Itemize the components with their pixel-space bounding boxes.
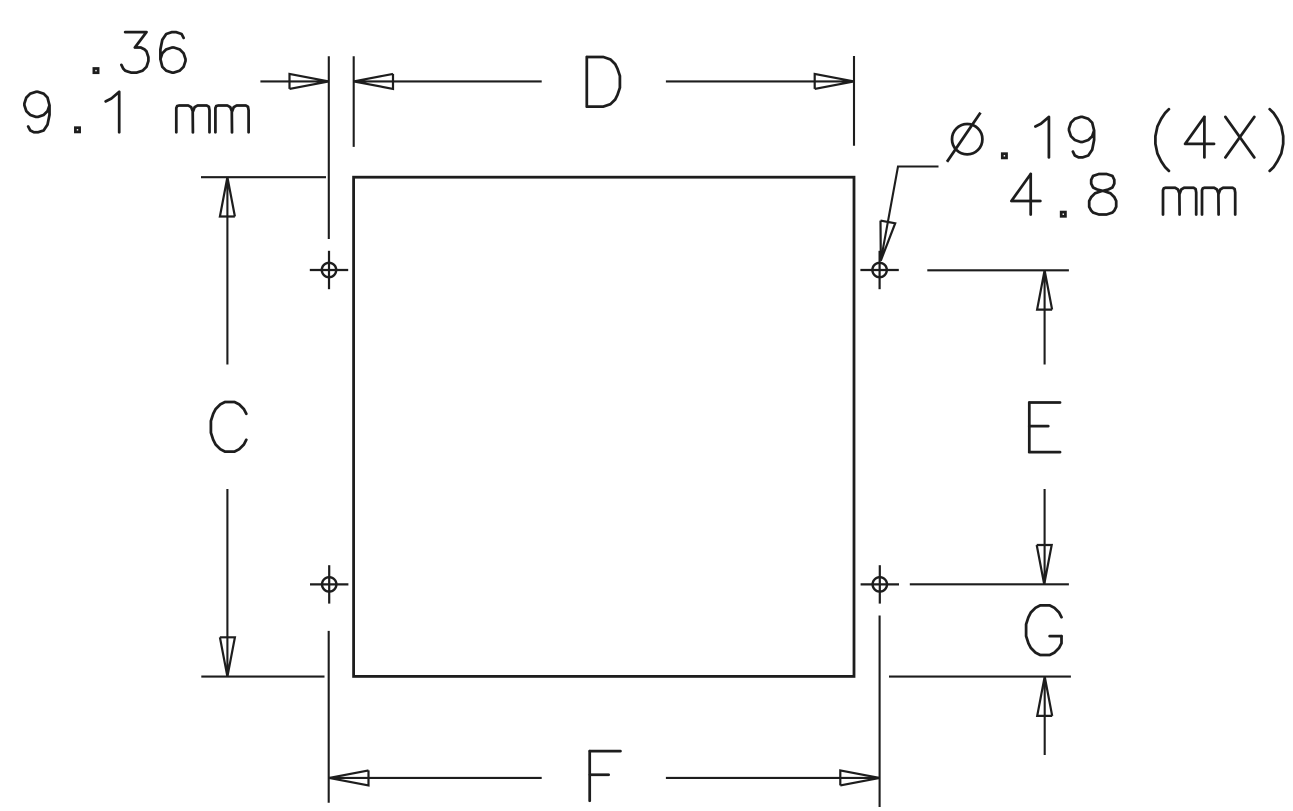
dimension text .36 bbox=[94, 69, 98, 73]
extension line square right edge top (x=854) bbox=[853, 56, 855, 146]
dimension C line lower segment bbox=[226, 489, 228, 677]
dimension F left arrowhead bbox=[329, 770, 368, 785]
extension line bottom edge left (y=677) bbox=[201, 676, 324, 678]
dimension letter C bbox=[211, 402, 246, 452]
dimension E up arrowhead bbox=[1037, 270, 1052, 309]
dimension C down arrowhead bbox=[220, 637, 235, 676]
dimension D line left segment bbox=[354, 80, 542, 82]
extension line hole-center right bottom (y=584) bbox=[910, 583, 1069, 585]
hole callout text .19 (4X) bbox=[1002, 154, 1006, 158]
dimension E line lower segment bbox=[1044, 489, 1046, 584]
dimension F right arrowhead bbox=[840, 770, 879, 785]
extension line bottom edge right (y=677) bbox=[889, 676, 1071, 678]
.36 dimension line bbox=[260, 80, 328, 82]
extension line hole-center right top (y=270) bbox=[927, 269, 1069, 271]
dimension D line right segment bbox=[666, 80, 854, 82]
hole callout text 4.8 mm bbox=[1011, 174, 1040, 201]
extension line hole-center top (x=329) bbox=[328, 56, 330, 239]
extension line hole-center bottom-left (x=329) bbox=[328, 631, 330, 803]
leader arrowhead bbox=[881, 221, 896, 261]
dimension G up arrowhead stem bbox=[1044, 677, 1046, 755]
dimension F line right segment bbox=[666, 777, 880, 779]
extension line hole-center bottom-right (x=880) bbox=[879, 616, 881, 808]
dimension letter F bbox=[588, 751, 591, 801]
dimension C up arrowhead bbox=[220, 177, 235, 216]
panel outline square bbox=[354, 177, 854, 676]
dimension C line upper segment bbox=[226, 177, 228, 364]
dimension F line left segment bbox=[329, 777, 542, 779]
dimension letter E bbox=[1028, 403, 1031, 453]
mounting hole top-left bbox=[322, 263, 336, 277]
extension line top edge left (y=177) bbox=[201, 176, 326, 178]
.36 dimension arrowhead bbox=[290, 74, 329, 89]
dimension E line upper segment bbox=[1044, 270, 1046, 364]
dimension D left arrowhead bbox=[354, 74, 393, 89]
dimension G up arrowhead bbox=[1037, 677, 1052, 716]
mounting hole bottom-left bbox=[322, 577, 336, 591]
mounting hole top-right bbox=[872, 263, 886, 277]
dimension letter D bbox=[585, 57, 588, 107]
diameter symbol bbox=[952, 124, 982, 154]
dimension E down arrowhead bbox=[1037, 545, 1052, 584]
mounting hole bottom-right bbox=[873, 577, 887, 591]
dimension D right arrowhead bbox=[815, 74, 854, 89]
extension line square left edge top (x=354) bbox=[353, 56, 355, 147]
dimension text 9.1 mm bbox=[24, 92, 49, 133]
leader line hole callout bbox=[881, 167, 939, 261]
dimension letter G bbox=[1026, 605, 1061, 655]
